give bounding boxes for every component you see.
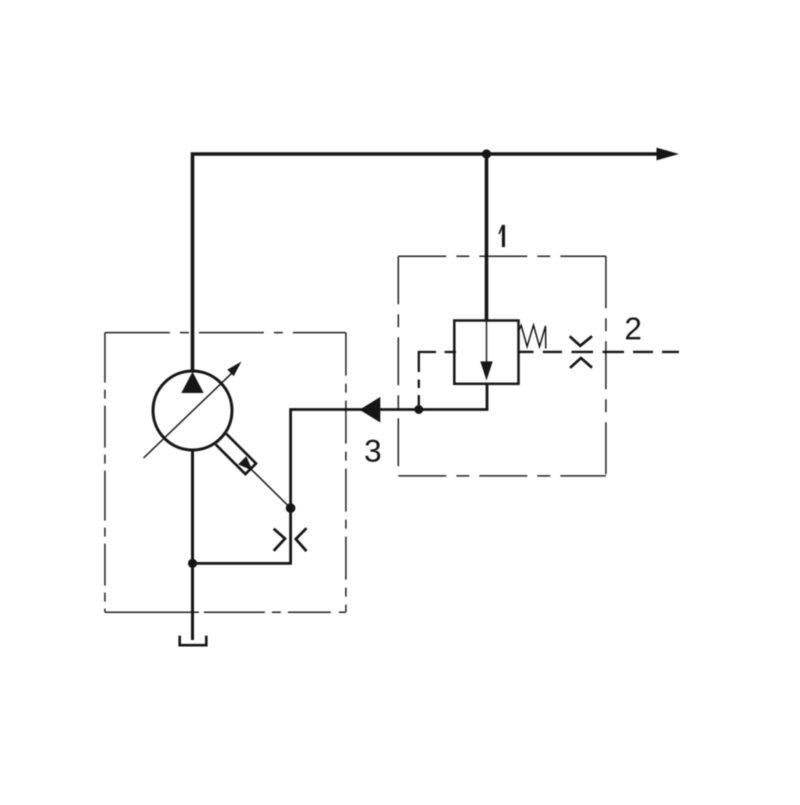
wire: thin drain line to junction [251,470,290,509]
node: junction at pump suction [188,559,197,568]
wire: port 3 line from valve to pump loop [193,384,488,563]
wire: port 2 dashed drain line [519,351,679,353]
label port 3 [365,440,380,462]
node: junction drain/bypass [286,503,296,513]
label port 2 [626,317,640,339]
wire: pump outlet to tank [191,451,194,641]
label port 1 [498,225,505,247]
node: pilot junction on port 3 line [414,405,423,414]
pump enclosure box (dash-dot) [105,333,346,613]
valve body square [454,321,518,384]
valve enclosure box (dash-dot) [398,256,606,476]
node: junction on top line [482,149,491,158]
wire: port 1 vertical into valve [485,154,489,322]
restrictor on port 2 line [570,336,592,346]
arrow: flow direction right at line end [657,148,680,161]
restrictor on bypass vertical line [274,529,285,551]
pump flow triangle (up) [181,372,203,393]
valve internal flow path arrow (down) [486,321,488,362]
spring on valve right side [519,325,546,348]
variable displacement arrow through pump [144,372,234,458]
pump circle P1 [153,371,232,450]
tank symbol [180,636,207,646]
drain arrowhead [238,456,257,475]
arrow: flow direction left on port 3 line [360,397,381,423]
pilot line (dashed) from valve left to port3 junction [419,352,456,407]
wire: top pressure line P [193,154,660,372]
drain port channel on pump (rotated 45) [216,434,258,476]
